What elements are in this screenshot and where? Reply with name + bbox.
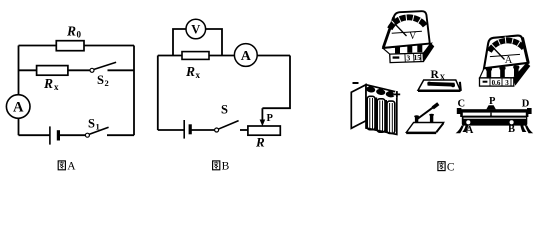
svg-text:R: R (431, 69, 440, 81)
svg-text:A: A (241, 49, 252, 64)
svg-text:S: S (221, 103, 228, 117)
svg-text:x: x (54, 82, 59, 92)
svg-text:C: C (458, 99, 466, 110)
svg-text:X: X (440, 73, 446, 82)
svg-text:S: S (88, 117, 95, 131)
svg-text:A: A (466, 125, 474, 136)
svg-text:S: S (97, 73, 104, 87)
svg-text:R: R (255, 135, 265, 150)
svg-text:V: V (191, 23, 200, 37)
svg-text:B: B (508, 124, 515, 135)
svg-text:B: B (222, 161, 230, 173)
svg-text:1: 1 (96, 122, 100, 132)
svg-text:2: 2 (105, 78, 109, 88)
svg-text:P: P (489, 96, 496, 107)
svg-text:R: R (66, 24, 76, 39)
svg-text:R: R (43, 76, 53, 91)
svg-text:C: C (447, 161, 455, 173)
svg-text:3: 3 (505, 79, 509, 87)
svg-text:3: 3 (406, 54, 410, 63)
svg-text:R: R (185, 64, 195, 79)
svg-text:A: A (505, 55, 513, 66)
svg-text:0: 0 (77, 30, 82, 40)
svg-text:A: A (13, 100, 24, 116)
svg-text:15: 15 (414, 53, 422, 62)
svg-text:D: D (522, 99, 530, 110)
svg-text:V: V (409, 31, 417, 42)
svg-text:0.6: 0.6 (492, 79, 501, 87)
svg-text:P: P (267, 113, 274, 124)
svg-text:A: A (67, 161, 76, 173)
svg-text:x: x (196, 70, 201, 80)
